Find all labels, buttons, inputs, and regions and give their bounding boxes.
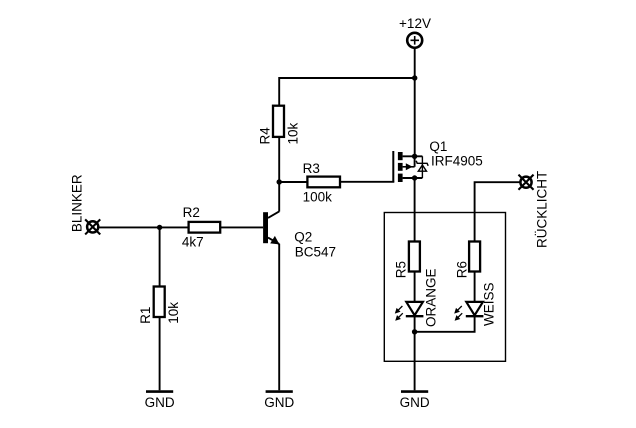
svg-text:Q2: Q2	[294, 229, 312, 244]
wire junction to R2	[160, 226, 189, 228]
node +12V junction	[412, 75, 417, 80]
body diode branch	[421, 156, 423, 178]
svg-text:R4: R4	[258, 127, 273, 145]
node drain dot	[412, 175, 417, 180]
wire LED2 to node	[415, 316, 475, 332]
body diode cathode (zener bar)	[416, 161, 428, 166]
svg-text:IRF4905: IRF4905	[431, 153, 483, 168]
svg-text:R6: R6	[454, 261, 469, 278]
channel bar bottom	[398, 174, 403, 182]
wire R3 to gate	[340, 181, 394, 183]
pin source top	[403, 155, 423, 157]
svg-text:GND: GND	[145, 395, 175, 410]
svg-text:GND: GND	[264, 395, 294, 410]
svg-text:GND: GND	[400, 395, 430, 410]
wire drain down to R5	[414, 178, 416, 242]
svg-text:R5: R5	[394, 261, 409, 278]
svg-text:100k: 100k	[303, 190, 333, 205]
wire collector	[278, 182, 280, 212]
terminal RUECKLICHT	[519, 175, 533, 189]
svg-text:+12V: +12V	[399, 16, 431, 31]
node base junction	[157, 225, 162, 230]
svg-text:R3: R3	[303, 161, 320, 176]
svg-text:Q1: Q1	[429, 139, 447, 154]
resistor R3	[307, 177, 340, 188]
svg-text:4k7: 4k7	[182, 235, 204, 250]
svg-text:R2: R2	[183, 205, 200, 220]
wire top rail	[279, 78, 415, 106]
channel bar middle	[398, 163, 403, 171]
resistor R2	[189, 222, 221, 233]
wire junction to R1	[159, 227, 161, 286]
resistor R5	[409, 242, 420, 272]
svg-text:RÜCKLICHT: RÜCKLICHT	[534, 171, 549, 248]
pin drain bottom	[403, 177, 423, 179]
terminal BLINKER	[86, 220, 100, 234]
body diode anode triangle	[418, 165, 426, 171]
wire R1 to GND	[159, 317, 161, 390]
wire R5 to LED1	[414, 272, 416, 302]
transistor Q2	[263, 211, 279, 244]
resistor R4	[273, 106, 284, 137]
wire BLINKER to junction	[100, 226, 160, 228]
svg-text:10k: 10k	[285, 122, 300, 144]
LED D2	[455, 302, 483, 320]
wire node to GND3	[414, 332, 416, 391]
transistor Q1 MOSFET	[393, 151, 428, 183]
supply +12V	[407, 33, 422, 48]
gate bar	[392, 151, 394, 183]
node LED junction	[412, 329, 417, 334]
bulk stub	[414, 156, 416, 167]
wire LED1 to node	[414, 316, 416, 332]
wire source drop	[414, 78, 416, 156]
ground GND1	[145, 392, 175, 410]
resistor R6	[469, 242, 480, 272]
svg-text:WEISS: WEISS	[481, 282, 496, 326]
wire R6 to LED2	[474, 272, 476, 302]
node source dot	[412, 154, 417, 159]
wire junction to R3	[279, 181, 307, 183]
node R4/R3/collector junction	[277, 179, 282, 184]
svg-text:BC547: BC547	[295, 244, 336, 259]
channel bar top	[398, 152, 403, 160]
wire emitter to GND	[278, 244, 280, 390]
wire R2 to base	[220, 226, 263, 228]
bulk arrow	[403, 166, 415, 168]
wire +12V stem	[414, 48, 416, 78]
ground GND2	[264, 392, 294, 410]
svg-text:R1: R1	[138, 307, 153, 324]
wire R4 bottom	[278, 137, 280, 182]
LED module box	[384, 213, 505, 362]
resistor R1	[154, 287, 165, 318]
svg-text:10k: 10k	[166, 302, 181, 324]
ground GND3	[400, 392, 430, 410]
svg-text:ORANGE: ORANGE	[423, 268, 438, 327]
svg-text:BLINKER: BLINKER	[69, 174, 84, 232]
wire RUECKLICHT to R6	[475, 182, 520, 241]
LED D1	[396, 302, 424, 320]
